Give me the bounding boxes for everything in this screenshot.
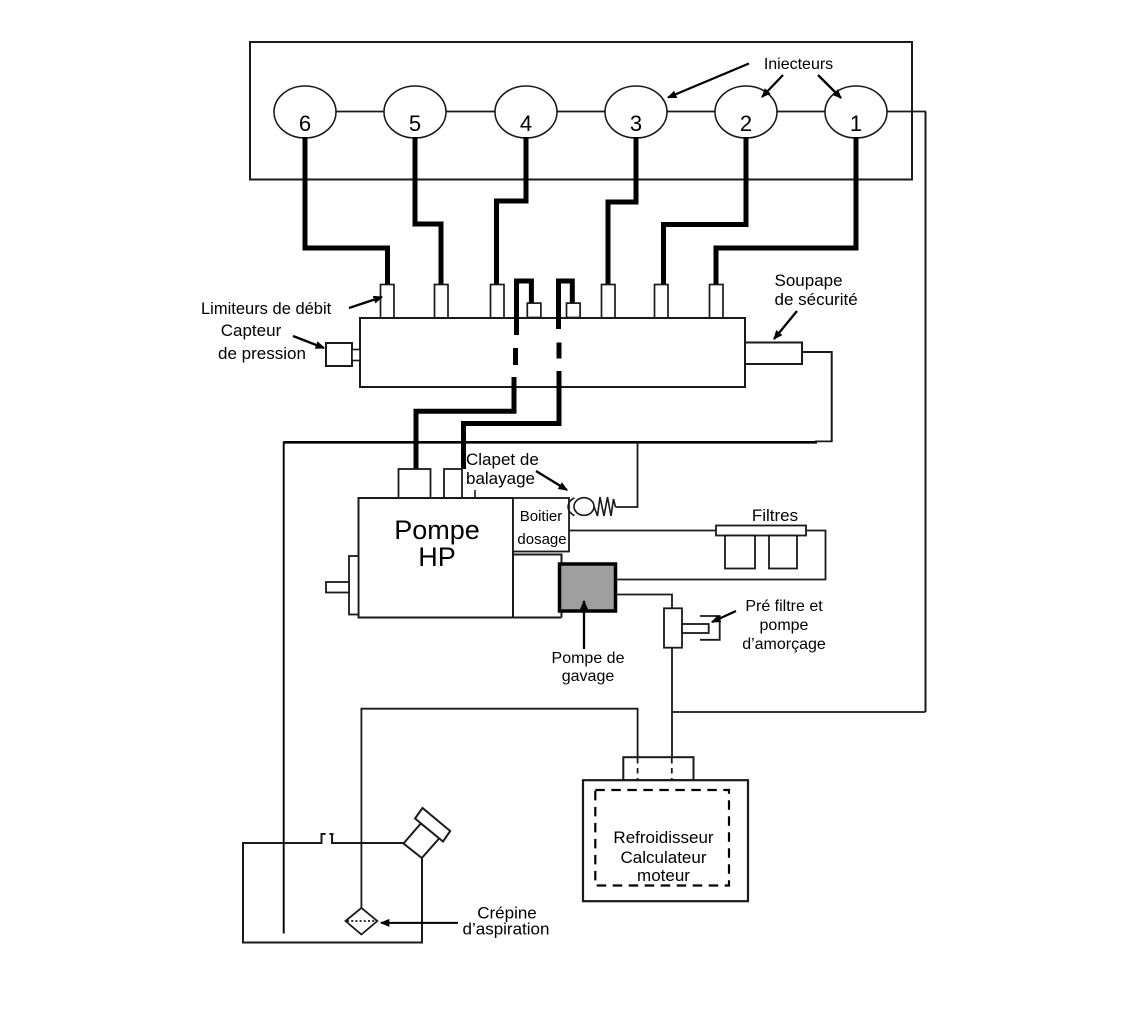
pre-filter body [664,608,682,647]
pump shaft nub [326,582,349,593]
scavenge loop U2 [559,281,573,320]
injector 2 [715,86,777,138]
transfer pump (gray) [560,564,616,611]
scavenge return pipe to pump inlet 1 [416,377,514,469]
svg-text:pompe: pompe [760,617,809,634]
priming pump bracket [700,616,720,640]
tank top right segment [333,842,404,844]
svg-text:3: 3 [630,111,642,136]
fuel tank outline [243,843,422,943]
filler neck [404,824,440,859]
wire right return (injector line to lower right) [925,112,927,713]
dashed wires inside connector [637,758,639,790]
svg-text:Clapet de: Clapet de [466,450,539,469]
svg-text:Refroidisseur: Refroidisseur [613,828,713,847]
ECU cooler outer box [583,780,748,901]
pump inlet stub 2 [444,469,462,498]
metering unit (Boitier dosage) [513,498,569,552]
svg-text:Boitier: Boitier [520,508,563,525]
rail stub B [567,303,581,317]
svg-text:Calculateur: Calculateur [621,848,707,867]
safety valve body [745,343,802,365]
scavenge loop U1 [517,281,532,320]
high pressure pipe injector 2 [664,137,747,285]
svg-text:1: 1 [850,111,862,136]
tick on pump top [474,490,476,498]
filter cartridge 2 [769,536,797,569]
tank top notch right tick [330,834,334,844]
flow limiter L1 [381,285,395,319]
engine block frame [250,42,912,180]
pressure sensor stub [352,350,360,361]
arrow to injector 3 [668,64,749,98]
pump inlet stub 1 [399,469,431,498]
svg-text:Soupape: Soupape [775,271,843,290]
arrow to injector 1 [818,75,841,98]
svg-text:dosage: dosage [517,531,566,548]
injector 3 [605,86,667,138]
svg-text:d’aspiration: d’aspiration [463,920,550,939]
injector 5 [384,86,446,138]
filter cartridge 1 [725,536,755,569]
svg-text:Pompe: Pompe [394,515,480,545]
arrow to injector 2 [762,75,783,97]
scavenge valve spring [594,497,616,516]
svg-text:2: 2 [740,111,752,136]
svg-text:Pré filtre et: Pré filtre et [745,598,823,615]
wire right return to engine area [672,711,926,713]
arrow to limiter L1 [349,297,382,308]
filter head bar [716,526,806,536]
scavenge return dashed through rail (left) [513,348,518,365]
svg-text:6: 6 [299,111,311,136]
flow limiter L4 [602,285,616,319]
svg-text:d’amorçage: d’amorçage [742,636,826,653]
svg-text:Pompe de: Pompe de [552,650,625,667]
arrow to scavenge valve [536,471,567,490]
flow limiter L2 [435,285,449,319]
high pressure pipe injector 1 [716,137,856,285]
common rail [360,318,745,387]
return manifold wire thin end [815,440,833,442]
svg-text:balayage: balayage [466,469,535,488]
pre-filter outlet stub [682,624,709,633]
filler cap [415,808,450,842]
svg-text:4: 4 [520,111,532,136]
injector 6 [274,86,336,138]
scavenge valve arc [568,498,574,516]
pump lower right box [513,555,562,618]
pump left flange [349,556,359,615]
high pressure pipe injector 3 [608,137,636,285]
svg-text:moteur: moteur [637,866,690,885]
pressure sensor body [326,343,352,366]
scavenge valve ball [574,498,594,516]
scavenge return dashed through rail (right) [557,343,562,359]
suction strainer (crepine) [346,908,378,935]
return manifold wire (horizontal) [284,441,817,444]
svg-text:HP: HP [418,542,456,572]
arrow to priming pump [712,611,736,622]
high pressure pipe injector 4 [497,137,527,285]
pump bottom extension [513,617,562,619]
svg-text:5: 5 [409,111,421,136]
arrow to safety valve [774,311,797,339]
tank top notch left tick [322,834,326,844]
wire metering unit to filters [569,530,716,532]
wire safety valve to return manifold [802,352,832,442]
ECU cooler inner dashed box [595,790,729,886]
scavenge return pipe to pump inlet 2 [464,371,560,469]
wire linking injectors [336,111,926,113]
high pressure pipe injector 6 [305,137,388,285]
injector 4 [495,86,557,138]
svg-text:de sécurité: de sécurité [775,290,858,309]
flow limiter L6 [710,285,724,319]
HP pump body [359,498,514,618]
arrow to strainer [381,922,458,924]
svg-text:Limiteurs de débit: Limiteurs de débit [201,300,332,318]
flow limiter L3 [491,285,505,319]
high pressure pipe injector 5 [415,137,441,285]
svg-text:gavage: gavage [562,668,615,685]
svg-text:de pression: de pression [218,344,306,363]
wire transfer pump to pre-filter [616,595,673,758]
flow limiter L5 [655,285,669,319]
arrow to transfer pump [583,601,585,649]
svg-text:Iniecteurs: Iniecteurs [764,56,833,73]
injector 1 [825,86,887,138]
wire filters to transfer pump [616,531,826,580]
wire suction line (crepine to cooler) [361,709,637,908]
svg-text:Filtres: Filtres [752,506,798,525]
rail stub A [527,303,541,317]
arrow to pressure sensor [293,336,324,348]
svg-text:Capteur: Capteur [221,321,282,340]
dotted line in strainer [347,920,376,922]
return wire down to tank [283,442,285,934]
scavenge line solid tops inside rail [514,317,519,335]
cooler connector block [623,757,693,780]
wire scavenge valve to return manifold [616,442,638,508]
